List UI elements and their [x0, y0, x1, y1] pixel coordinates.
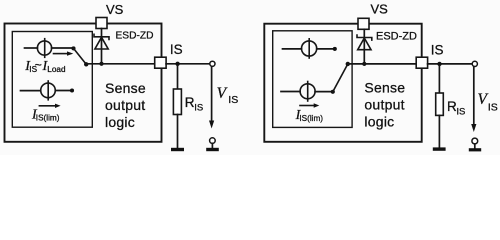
pad IS (left)	[155, 57, 166, 68]
svg-text:ESD-ZD: ESD-ZD	[116, 31, 154, 42]
svg-text:ESD-ZD: ESD-ZD	[376, 31, 417, 43]
open contact dot lower (left)	[70, 88, 74, 92]
inner box (sense cell, left)	[12, 32, 92, 128]
svg-text:logic: logic	[105, 114, 135, 130]
label I_IS(lim) (right)	[295, 108, 324, 123]
current arrow label I_IS(lim) (right)	[300, 103, 319, 107]
wire pad to output terminal (right)	[428, 63, 473, 65]
label R_IS (left)	[185, 95, 203, 114]
current source I_IS(lim) (left, lower)	[21, 81, 73, 100]
label V_IS (right)	[478, 91, 498, 113]
ground terminal (left)	[210, 138, 216, 148]
svg-text:Sense: Sense	[364, 80, 405, 96]
outer box (IC boundary, right)	[264, 24, 421, 142]
svg-text:IS: IS	[488, 101, 498, 113]
switch arm (left)	[74, 48, 87, 64]
ground bar under resistor (left)	[171, 148, 184, 151]
junction dot zener/IS line (right)	[362, 62, 366, 66]
svg-text:output: output	[105, 97, 145, 113]
label I_IS ~ I_Load	[24, 58, 66, 74]
pad VS (right)	[358, 18, 369, 29]
ground terminal (right)	[472, 138, 478, 148]
svg-text:logic: logic	[364, 114, 394, 130]
svg-text:IS: IS	[228, 94, 238, 106]
ground bar under terminal (right)	[469, 148, 481, 151]
svg-text:IS: IS	[456, 107, 465, 118]
switch pivot dot (left)	[84, 62, 88, 66]
current source I_IS(lim) (right, lower)	[281, 82, 333, 102]
current source upper (right)	[283, 39, 335, 58]
V_IS measuring arrow (left)	[209, 67, 214, 129]
pad VS (left)	[96, 18, 107, 29]
current source I_IS~I_Load (left, upper)	[25, 39, 74, 58]
svg-text:IS: IS	[431, 42, 444, 57]
svg-text:V: V	[478, 91, 489, 108]
output terminal circle (left)	[210, 61, 215, 66]
label Sense output logic (left)	[105, 80, 146, 130]
outer box (IC boundary, left)	[5, 24, 162, 142]
ground bar under resistor (right)	[433, 147, 446, 150]
label Sense output logic (right)	[364, 80, 405, 130]
svg-text:VS: VS	[106, 2, 124, 17]
junction dot IS/RIS (left)	[175, 62, 179, 66]
wire pad to output terminal (left)	[166, 63, 210, 65]
junction dot IS/RIS (right)	[437, 62, 441, 66]
label I_IS(lim) (left)	[31, 108, 60, 123]
open contact dot upper (right)	[333, 47, 337, 51]
switch contact dot lower (right)	[331, 90, 335, 94]
wire IS line (right)	[348, 63, 416, 65]
output terminal circle (right)	[472, 61, 477, 66]
V_IS measuring arrow (right)	[471, 67, 476, 132]
svg-text:VS: VS	[371, 2, 389, 17]
junction dot zener/IS line (left)	[99, 62, 103, 66]
label R_IS (right)	[447, 99, 465, 118]
svg-text:IS: IS	[170, 42, 183, 57]
svg-text:Load: Load	[47, 65, 66, 74]
pad IS (right)	[416, 57, 427, 68]
switch arm (right)	[333, 64, 348, 92]
inner box (sense cell, right)	[273, 31, 352, 128]
svg-text:~: ~	[35, 58, 42, 72]
svg-text:IS(lim): IS(lim)	[36, 113, 60, 122]
wire IS line (left)	[86, 63, 154, 65]
zener diode ESD-ZD (right)	[357, 29, 372, 64]
current arrow label I_IS(lim) (left)	[39, 104, 60, 108]
svg-text:IS: IS	[194, 103, 203, 114]
svg-text:IS(lim): IS(lim)	[299, 114, 323, 123]
switch contact dot upper (left)	[71, 46, 75, 50]
label V_IS (left)	[217, 85, 239, 106]
current arrow of upper source (left)	[54, 51, 74, 55]
resistor R_IS (right)	[436, 66, 444, 147]
svg-text:V: V	[217, 85, 228, 102]
svg-text:output: output	[364, 97, 404, 113]
svg-text:Sense: Sense	[105, 80, 146, 96]
resistor R_IS (left)	[173, 66, 181, 148]
switch pivot dot (right)	[346, 62, 350, 66]
zener diode ESD-ZD (left)	[94, 29, 109, 64]
ground bar under terminal (left)	[206, 148, 219, 151]
